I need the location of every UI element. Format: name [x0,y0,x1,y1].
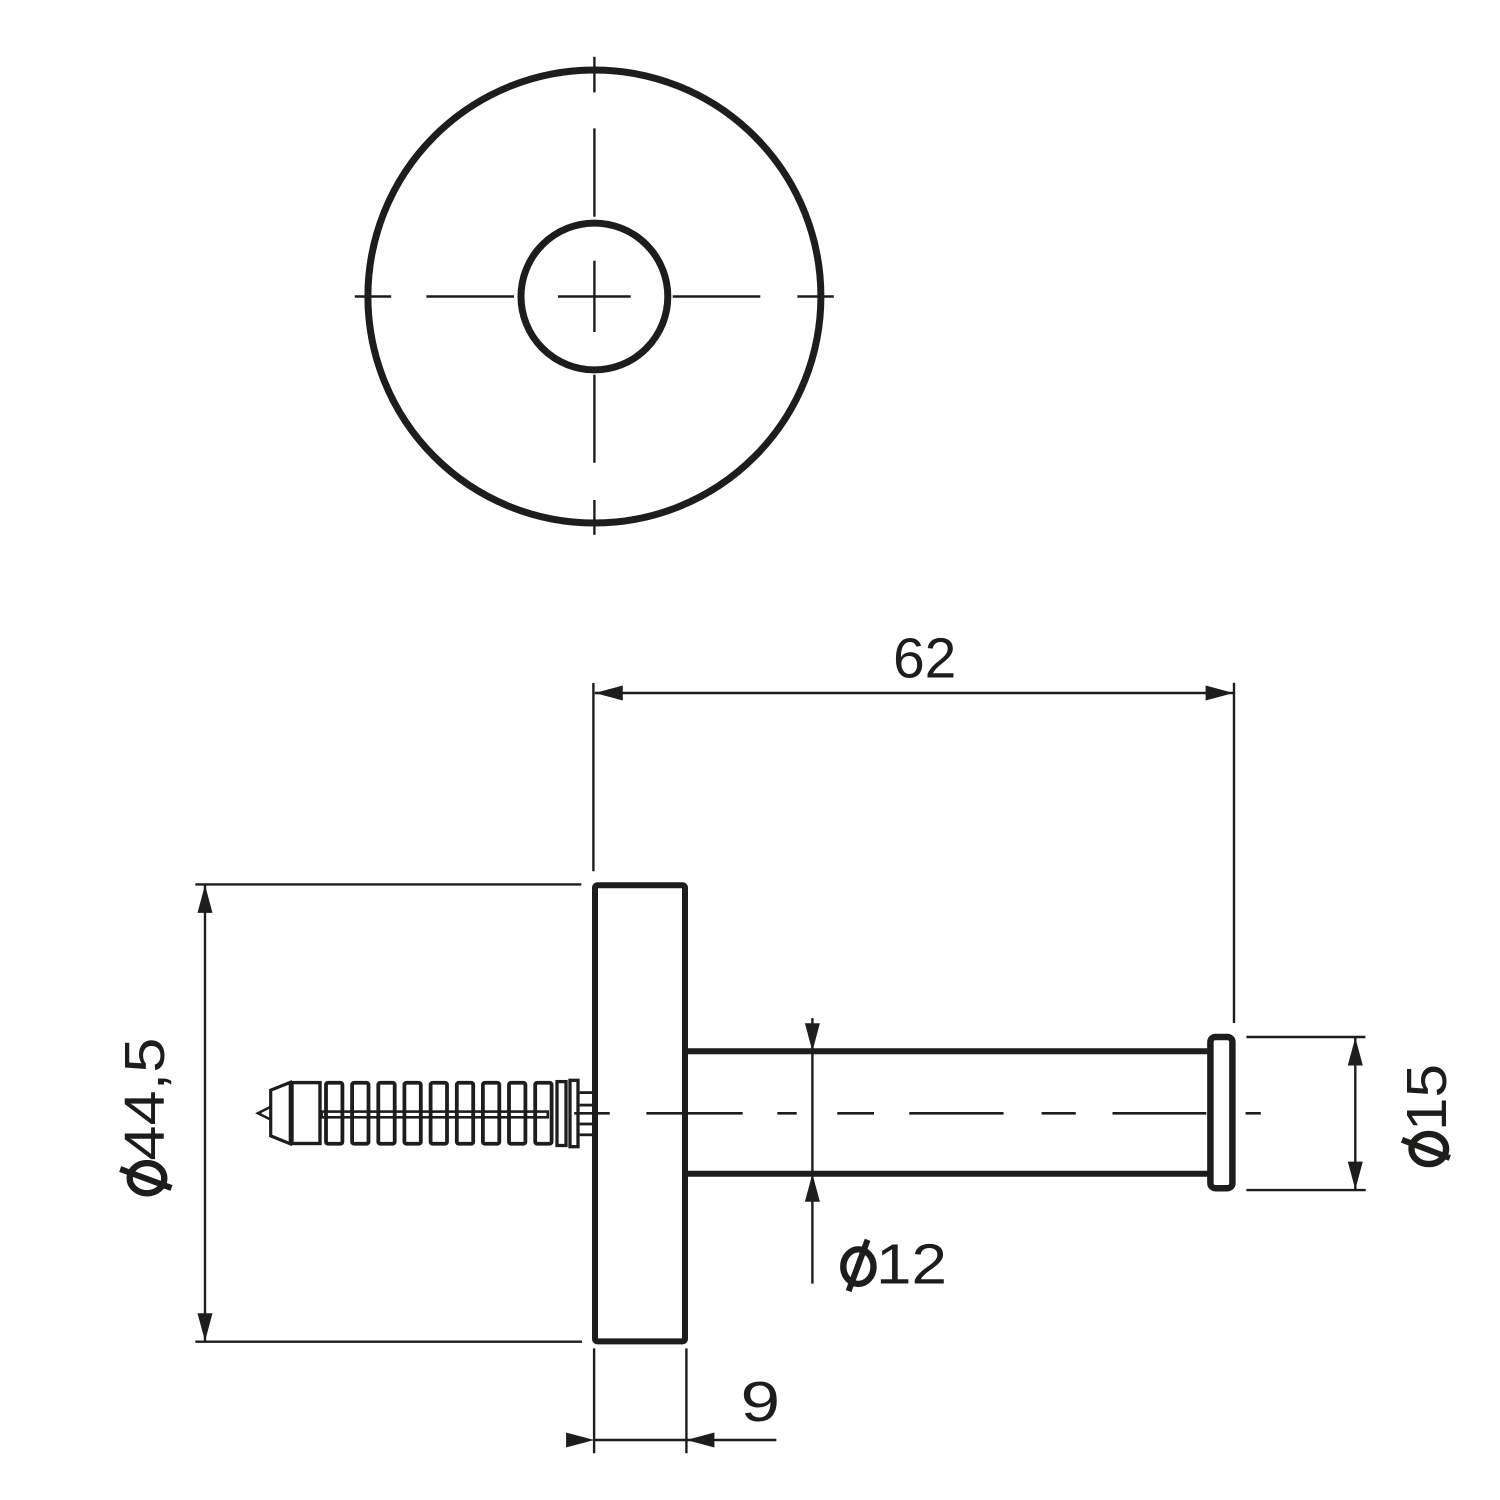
dim Ø44,5 label [113,1038,177,1194]
dim 62 extension line left [592,683,594,871]
dim Ø12 arrow top [805,1023,820,1051]
dim Ø12 arrow bottom [805,1174,820,1202]
svg-text:9: 9 [741,1370,781,1434]
plug washer collar 2 [570,1080,578,1146]
dim 62 dimension line [595,692,1234,694]
wall plug rib 1 [326,1083,342,1144]
side view centerline [574,1112,1261,1115]
dim 9 extension line right [685,1348,687,1453]
svg-text:15: 15 [1395,1064,1459,1131]
wall plug rib 5 [431,1083,447,1144]
screw cone head [271,1082,291,1143]
dim Ø15 arrow top [1348,1038,1363,1066]
dim Ø44,5 arrow bottom [198,1313,213,1341]
svg-text:12: 12 [876,1233,947,1297]
dim 9 arrow left [566,1433,594,1448]
wall plug rib 3 [378,1083,394,1144]
dim Ø15 arrow bottom [1348,1162,1363,1190]
post bottom edge [687,1171,1210,1177]
dim Ø15 dimension line [1354,1038,1356,1190]
dim 9 arrow right [686,1433,714,1448]
dim Ø15 extension line bottom [1246,1189,1365,1191]
wall plug rib 6 [457,1083,473,1144]
dim Ø12 label [843,1233,947,1297]
dim Ø44,5 extension line bottom [195,1340,582,1342]
wall plug rib 7 [483,1083,499,1144]
dim Ø44,5 extension line top [195,883,581,885]
dim Ø15 extension line top [1246,1036,1365,1038]
dim 62 arrow right [1206,686,1234,701]
flange outer circle (front view) [368,70,821,523]
screw head cylinder [292,1083,320,1144]
dim 62 extension line right [1233,683,1235,1023]
wall plug rib 2 [352,1083,368,1144]
flange (side view) [595,885,685,1341]
dim 62 arrow left [595,686,623,701]
screw tip point [258,1107,270,1119]
dim 9 extension line left [593,1348,595,1453]
post top edge [687,1048,1210,1054]
svg-text:62: 62 [893,627,956,691]
plug prongs [580,1093,594,1135]
dim 9 dimension line [594,1439,686,1441]
dim Ø15 label [1395,1064,1459,1164]
flange inner hole circle (front view) [521,223,668,370]
svg-text:44,5: 44,5 [113,1038,177,1161]
dim Ø44,5 arrow top [198,885,213,913]
dim Ø12 dimension line [811,1018,813,1284]
wall plug rib 4 [404,1083,420,1144]
front view horizontal centerline [355,295,834,297]
plug washer collar 1 [557,1082,566,1146]
wall plug rib 8 [509,1083,525,1144]
screw shank [322,1112,548,1118]
front view vertical centerline [593,57,595,535]
end cap disc [1210,1037,1232,1188]
dim 9 leader tail [686,1439,776,1441]
wall plug rib 9 [535,1083,551,1144]
dim Ø44,5 dimension line [204,885,206,1341]
